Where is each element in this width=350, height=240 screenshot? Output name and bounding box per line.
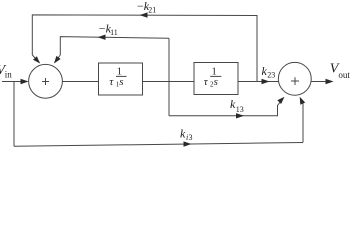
wire input branch drop to bottom rail: [13, 82, 15, 147]
wire input Vin to summer S1: [2, 81, 27, 83]
wire -k21 entry diagonal into S1: [32, 55, 39, 63]
arrowhead input into S1: [21, 79, 29, 84]
svg-text:21: 21: [148, 5, 156, 14]
plus sign in S2: [291, 77, 299, 85]
svg-text:s: s: [119, 76, 123, 88]
summing junction S1: [29, 64, 63, 98]
arrowhead -k21 diagonal into S1 top-left: [33, 56, 40, 63]
svg-text:τ: τ: [204, 76, 209, 88]
svg-text:13: 13: [236, 105, 244, 114]
wire rail -k11: [60, 37, 169, 55]
svg-text:in: in: [5, 69, 13, 79]
wire ki3 riser into summer S2: [301, 100, 303, 143]
label Vout: [330, 62, 350, 81]
svg-text:τ: τ: [109, 76, 114, 88]
arrowhead -k11 diagonal into S1 top-right: [54, 56, 61, 64]
label -k11: [99, 21, 118, 37]
value label 1/(tau1 s) in block U1: [109, 66, 126, 88]
arrowhead -k21 rail (leftward): [140, 12, 148, 17]
label ki3: [180, 127, 193, 143]
wire -k11 entry diagonal into S1: [55, 55, 61, 63]
svg-text:s: s: [214, 76, 218, 88]
label k13: [230, 97, 244, 114]
label Vin: [0, 63, 12, 79]
block U2 integrator 1/(tau2 s): [194, 63, 238, 95]
svg-text:out: out: [338, 70, 350, 80]
label -k21: [137, 0, 156, 14]
arrowhead ki3 mid-line: [184, 141, 192, 146]
wire S1 to block G1: [62, 81, 98, 83]
value label 1/(tau2 s) in block U2: [204, 66, 222, 88]
label k23: [262, 64, 276, 80]
summing junction S2: [278, 62, 311, 95]
wire top rail -k21: [32, 15, 257, 82]
arrowhead output Vout: [326, 79, 334, 84]
arrowhead ki3 end into S2 bottom-right: [300, 97, 306, 105]
wire S2 to output Vout: [311, 81, 330, 83]
arrowhead k23 into S2: [262, 79, 270, 84]
wire block G1 to block G2: [143, 81, 195, 83]
svg-text:23: 23: [267, 71, 275, 80]
svg-text:3: 3: [189, 133, 193, 142]
block U1 integrator 1/(tau1 s): [99, 63, 143, 95]
svg-text:11: 11: [110, 28, 118, 37]
arrowhead -k11 rail (leftward): [98, 35, 106, 40]
plus sign in S1: [42, 78, 49, 85]
arrowhead k13 end into S2 bottom-left: [277, 97, 284, 104]
arrowhead k13 mid-line: [236, 113, 244, 118]
wire k13 line: [169, 99, 283, 116]
wire bottom rail ki3: [14, 143, 303, 147]
wire block G2 to summer S2: [238, 81, 279, 83]
wire tap vertical at node between blocks: [168, 38, 170, 116]
